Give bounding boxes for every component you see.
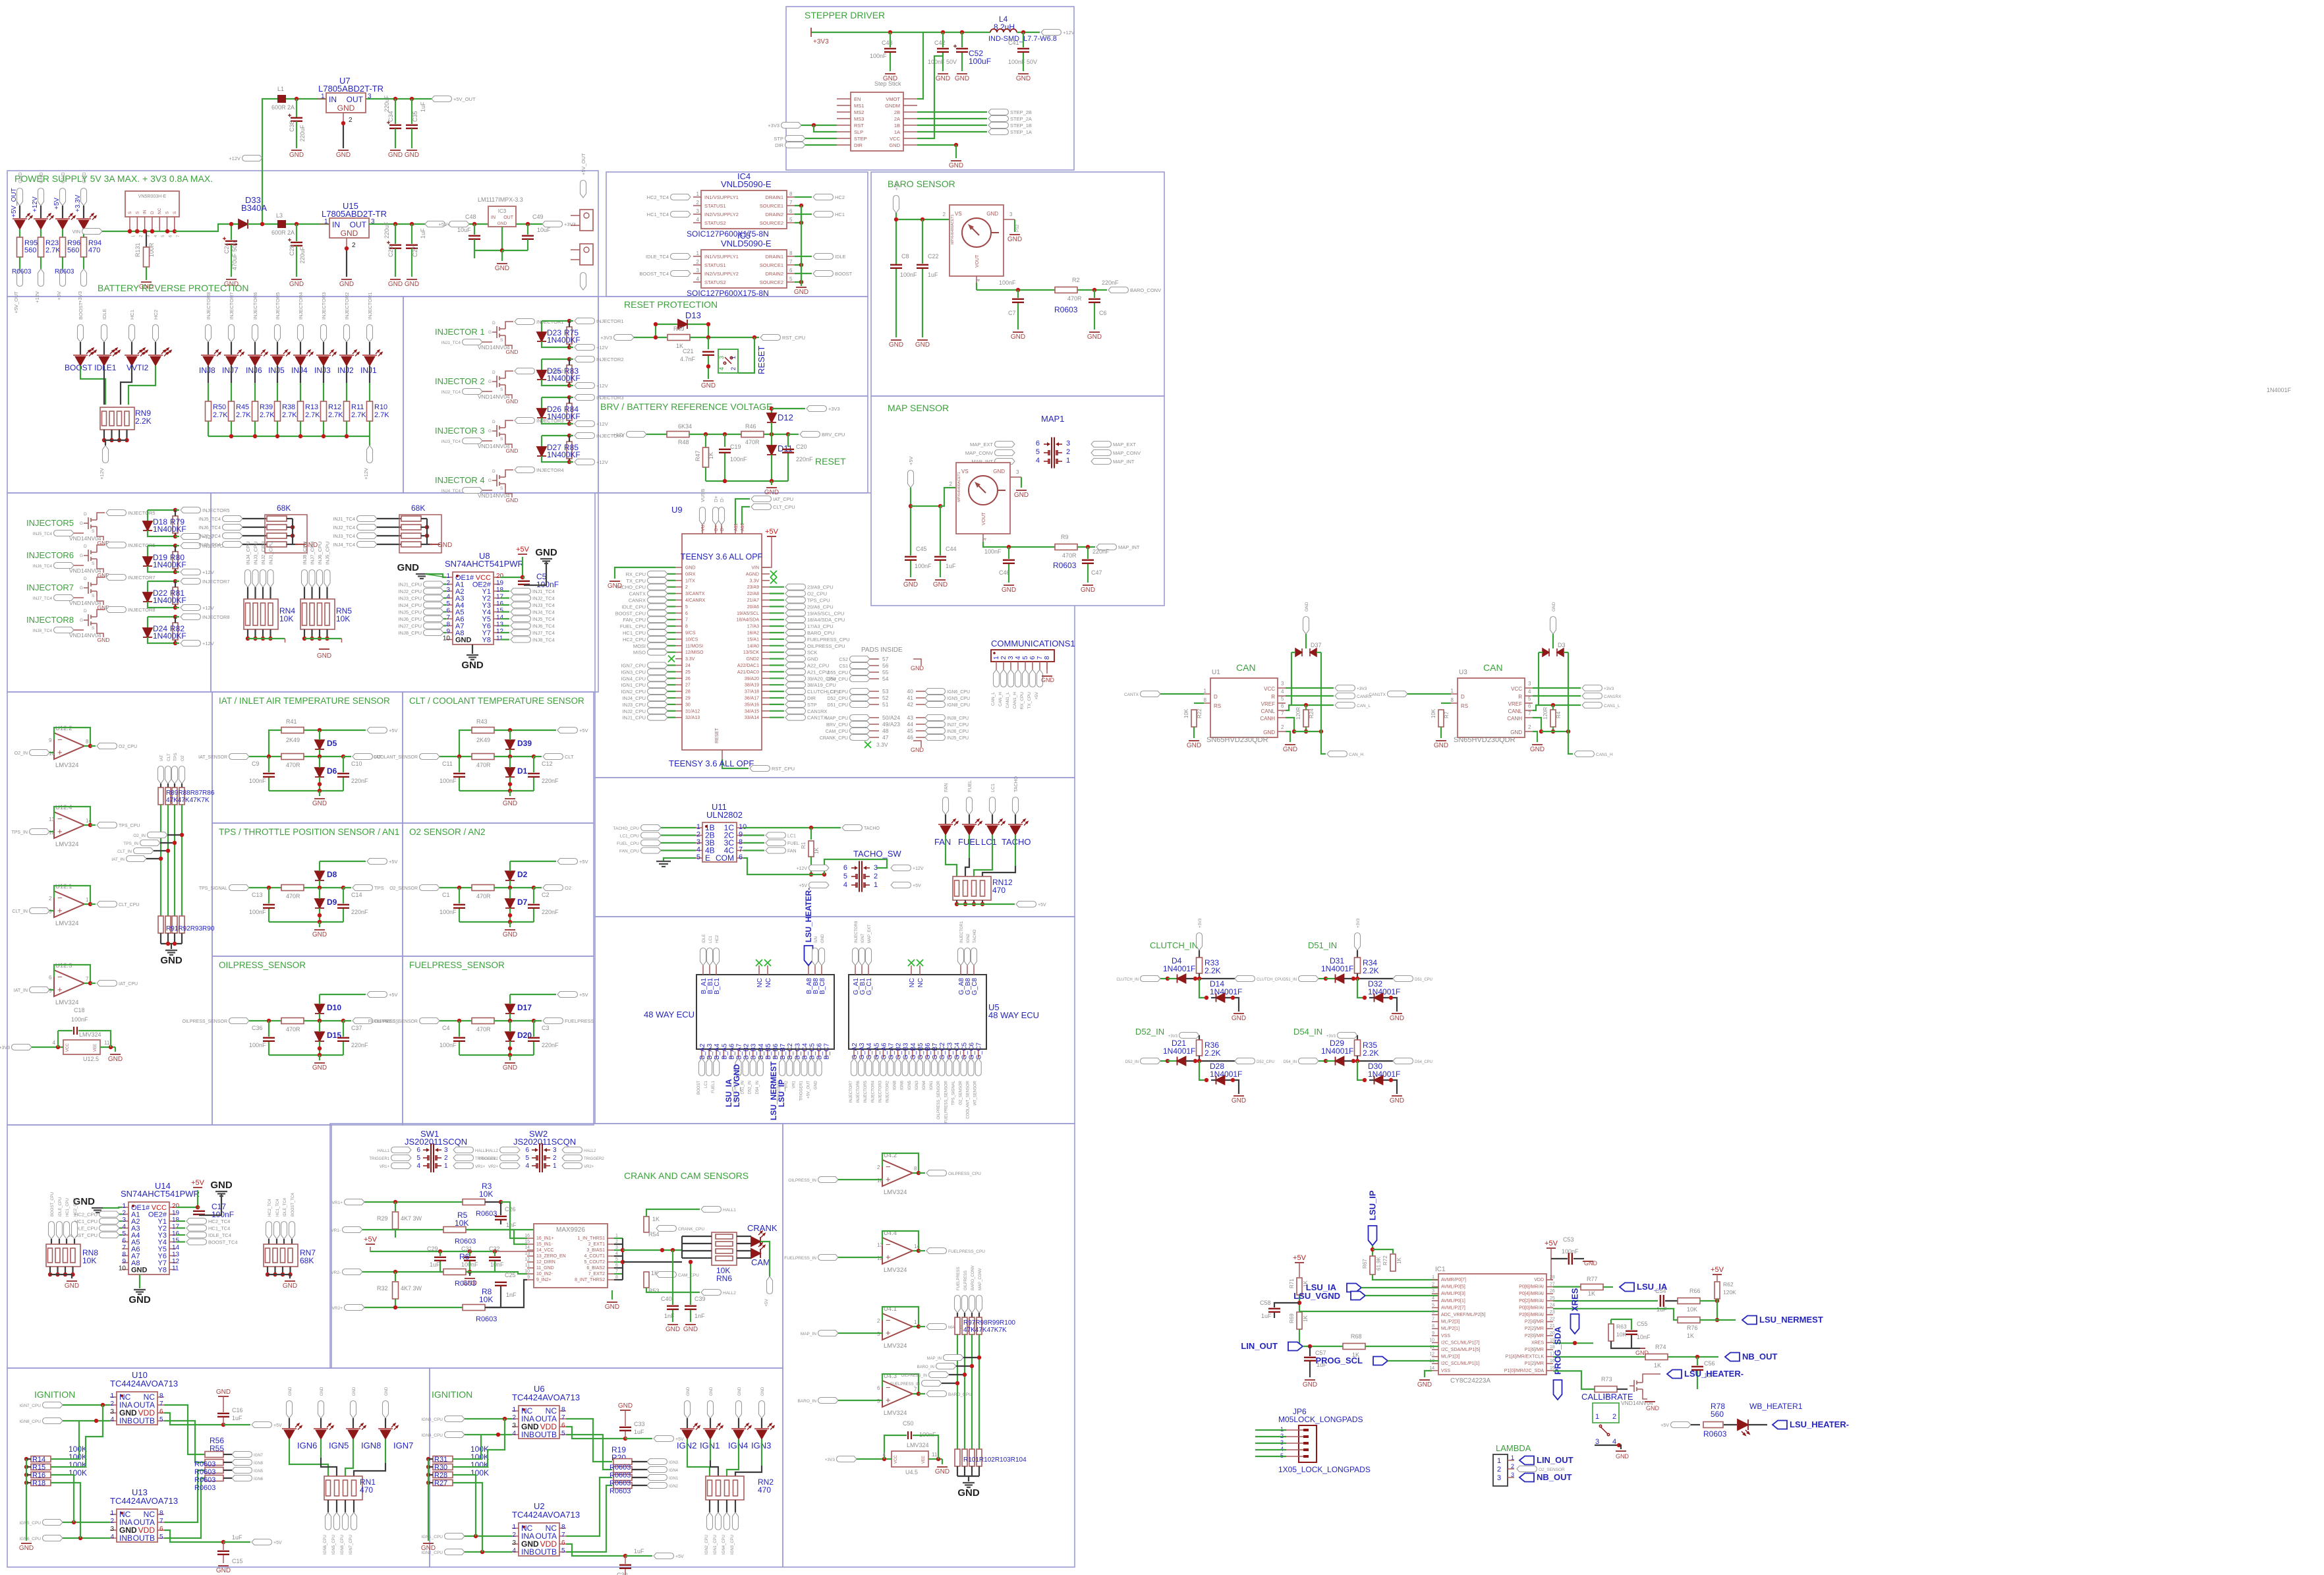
svg-text:1nF: 1nF [694, 1313, 705, 1319]
svg-text:D54_CPU: D54_CPU [1415, 1060, 1432, 1064]
svg-text:B_A3: B_A3 [706, 1043, 714, 1060]
svg-text:G_A3: G_A3 [859, 1043, 866, 1060]
svg-text:B_B3: B_B3 [751, 1043, 758, 1060]
svg-text:8: 8 [1432, 1324, 1434, 1329]
svg-text:R6: R6 [459, 1252, 470, 1261]
svg-text:INJ3_TC4: INJ3_TC4 [441, 440, 461, 444]
svg-text:2: 2 [696, 831, 700, 839]
svg-text:A22/DAC1: A22/DAC1 [737, 664, 759, 668]
svg-text:+5V: +5V [273, 1541, 282, 1545]
svg-text:47K47K47K7K: 47K47K47K7K [166, 797, 210, 804]
svg-text:+3V3: +3V3 [813, 38, 829, 45]
svg-text:MPXH6400ACET1: MPXH6400ACET1 [957, 472, 961, 502]
svg-text:IN: IN [143, 210, 148, 214]
svg-text:GND: GND [339, 281, 354, 288]
svg-text:+3.3V: +3.3V [74, 194, 82, 212]
svg-text:+12V: +12V [202, 605, 214, 611]
svg-text:IGN2: IGN2 [669, 1485, 679, 1489]
svg-text:O2_SENSOR: O2_SENSOR [389, 886, 418, 891]
flag D+ [713, 507, 719, 525]
svg-text:4: 4 [696, 276, 700, 282]
svg-text:R91R92R93R90: R91R92R93R90 [166, 925, 215, 932]
capacitor C33 1uF [619, 1427, 631, 1431]
svg-text:47: 47 [882, 734, 889, 741]
svg-text:4K7 3W: 4K7 3W [401, 1285, 422, 1292]
LED IGN2 [685, 1401, 691, 1419]
svg-text:TPS_SIGNAL: TPS_SIGNAL [951, 1080, 955, 1105]
svg-text:R41: R41 [286, 718, 297, 725]
svg-text:S: S [128, 211, 132, 214]
svg-text:16: 16 [172, 1230, 180, 1238]
svg-text:C1: C1 [442, 892, 450, 898]
svg-text:R0603: R0603 [1054, 305, 1078, 314]
svg-text:5: 5 [122, 1230, 126, 1238]
op-amp U12.2 [54, 733, 84, 759]
svg-text:AGND: AGND [746, 572, 759, 577]
resistor network RN2 470 [706, 1476, 744, 1500]
svg-text:INJ2_CPU: INJ2_CPU [260, 542, 266, 565]
svg-text:4: 4 [843, 881, 847, 889]
svg-text:+5V: +5V [893, 181, 899, 190]
flag +3V3 [542, 221, 563, 227]
svg-text:GND: GND [1087, 333, 1102, 341]
svg-text:OUTB: OUTB [133, 1533, 155, 1543]
flag LSU_IA right [1620, 1283, 1634, 1292]
capacitor C35 1uF [411, 99, 412, 124]
ecu B bottom pins [701, 1049, 702, 1058]
svg-text:2: 2 [49, 896, 52, 902]
svg-text:D: D [492, 420, 496, 424]
svg-text:STP: STP [807, 702, 817, 708]
svg-text:5: 5 [446, 600, 450, 608]
svg-text:VCC: VCC [1511, 686, 1522, 692]
svg-text:GND: GND [889, 341, 903, 349]
svg-text:R50: R50 [213, 403, 226, 411]
svg-text:G_C4: G_C4 [953, 1042, 961, 1060]
svg-text:GND: GND [506, 497, 519, 503]
svg-text:LC1: LC1 [709, 935, 713, 943]
svg-text:OILPRESS_CPU: OILPRESS_CPU [948, 1172, 981, 1176]
flag VIN [82, 229, 103, 235]
flag LSU_IP top [1369, 1226, 1377, 1246]
svg-text:B_B7: B_B7 [779, 1043, 787, 1060]
svg-text:OILPRESS: OILPRESS [964, 1271, 968, 1290]
svg-text:LMV324: LMV324 [55, 920, 78, 927]
resistor mid 470R [472, 885, 494, 891]
resistor R69 1K [1297, 1312, 1302, 1329]
svg-text:C10: C10 [351, 760, 362, 767]
svg-text:IN: IN [329, 95, 337, 104]
svg-text:MAP SENSOR: MAP SENSOR [888, 403, 949, 413]
svg-text:GND: GND [128, 1294, 151, 1305]
svg-text:R0603: R0603 [609, 1472, 631, 1479]
diode D7 [505, 899, 515, 908]
svg-text:INJ8_CPU: INJ8_CPU [302, 542, 308, 565]
svg-text:R66: R66 [1689, 1288, 1701, 1294]
svg-text:R0603: R0603 [194, 1484, 215, 1492]
svg-text:O2: O2 [565, 885, 571, 891]
svg-text:GND: GND [210, 1180, 233, 1191]
svg-text:B_A2: B_A2 [699, 1043, 706, 1060]
teensy gnd left [615, 567, 675, 579]
svg-text:IGN1: IGN1 [930, 1080, 934, 1090]
svg-text:IAT / INLET AIR TEMPERATURE SE: IAT / INLET AIR TEMPERATURE SENSOR [219, 696, 390, 706]
svg-text:C3: C3 [542, 1025, 550, 1031]
tacho_sw left flags [809, 865, 830, 871]
svg-text:MAP_INT: MAP_INT [1118, 544, 1140, 550]
svg-text:10K: 10K [1616, 1331, 1626, 1338]
svg-text:GND: GND [1434, 742, 1448, 749]
frame fuelpress box [403, 956, 594, 1125]
flag +3V3 CLUTCH_IN [1197, 933, 1203, 950]
svg-text:3.3V: 3.3V [750, 579, 760, 583]
svg-text:GND: GND [911, 665, 924, 672]
R101-104 bottom column [955, 1449, 960, 1466]
svg-text:INJECTOR7: INJECTOR7 [202, 579, 230, 585]
U6 outputs wires [566, 1419, 612, 1462]
svg-text:R0603: R0603 [455, 1280, 476, 1288]
svg-text:1N4001F: 1N4001F [1368, 987, 1400, 996]
svg-text:HC2_CPU: HC2_CPU [74, 1212, 98, 1218]
svg-text:INJECTOR5: INJECTOR5 [128, 510, 156, 516]
svg-text:19: 19 [496, 580, 504, 587]
wires to RN9 [80, 366, 105, 405]
svg-text:STATUS2: STATUS2 [704, 279, 726, 285]
svg-text:L1: L1 [277, 86, 284, 92]
connector 48 WAY ECU G [849, 975, 986, 1049]
svg-text:GND: GND [506, 349, 519, 355]
svg-text:470: 470 [88, 246, 100, 254]
svg-text:28: 28 [685, 690, 691, 695]
svg-text:+3V3: +3V3 [0, 1046, 10, 1050]
svg-text:−: − [57, 735, 63, 745]
svg-text:BOOST: BOOST [697, 1081, 701, 1095]
svg-text:VR1+: VR1+ [380, 1165, 390, 1169]
svg-text:GND: GND [216, 1389, 231, 1396]
svg-text:CAN1RX: CAN1RX [1604, 695, 1622, 699]
svg-text:R39: R39 [260, 403, 273, 411]
svg-text:O2 SENSOR / AN2: O2 SENSOR / AN2 [409, 827, 486, 837]
svg-text:SOIC127P600X175-8N: SOIC127P600X175-8N [687, 289, 769, 298]
svg-text:A21_CPU: A21_CPU [807, 669, 829, 675]
svg-text:1K: 1K [1303, 1315, 1309, 1322]
svg-text:IGN8: IGN8 [361, 1441, 381, 1450]
svg-text:+5V: +5V [1660, 1423, 1669, 1428]
wire L1 to U7 [286, 98, 326, 100]
svg-text:2: 2 [352, 242, 356, 249]
svg-text:JS202011SCQN: JS202011SCQN [513, 1137, 576, 1147]
svg-text:7: 7 [561, 1414, 565, 1421]
capacitor C2 220nF [533, 888, 534, 903]
svg-text:D52_IN: D52_IN [1125, 1060, 1139, 1064]
svg-text:43: 43 [907, 714, 914, 721]
svg-text:HC1: HC1 [129, 310, 135, 320]
svg-text:22: 22 [1550, 1317, 1555, 1322]
svg-text:2: 2 [349, 117, 353, 124]
flag D- [719, 507, 725, 525]
svg-text:6: 6 [1432, 1310, 1434, 1315]
svg-text:120K: 120K [1723, 1289, 1736, 1296]
svg-text:D+: D+ [714, 525, 719, 531]
svg-text:VEE: VEE [922, 1456, 926, 1464]
svg-text:1: 1 [110, 1510, 114, 1517]
svg-text:R15: R15 [32, 1464, 45, 1472]
svg-text:GND: GND [139, 283, 154, 291]
svg-text:IGN2: IGN2 [967, 933, 971, 943]
svg-text:INJ7_CPU: INJ7_CPU [399, 623, 422, 629]
svg-text:P0[6]/MR/AI: P0[6]/MR/AI [1519, 1285, 1544, 1290]
svg-text:IGN8_CPU: IGN8_CPU [947, 703, 970, 708]
svg-text:34/A15: 34/A15 [745, 709, 759, 714]
svg-text:D: D [1461, 694, 1465, 700]
U14 pin10 gnd [139, 1274, 140, 1288]
pads left group2 [850, 689, 870, 695]
svg-text:+5V: +5V [765, 528, 779, 536]
svg-text:1N4001F: 1N4001F [1210, 987, 1242, 996]
svg-text:+5V: +5V [1545, 1240, 1558, 1247]
svg-text:G: G [80, 554, 83, 558]
svg-text:6: 6 [561, 1422, 565, 1429]
svg-text:GND: GND [60, 172, 66, 183]
diode D9 [315, 899, 324, 908]
R73 transistor VND14NV04 lambda [1553, 1371, 1595, 1389]
svg-text:TPS_CPU: TPS_CPU [119, 824, 140, 828]
svg-text:2: 2 [1511, 1463, 1514, 1470]
svg-text:5: 5 [159, 1416, 163, 1423]
svg-text:6: 6 [1528, 703, 1531, 709]
resistor network RN7 68K [266, 1222, 272, 1240]
svg-text:GND: GND [81, 172, 87, 183]
pads left group3 [850, 715, 870, 721]
teensy top pins [702, 525, 703, 534]
capacitor C29 1uF [439, 1251, 441, 1256]
teensy right pins [762, 567, 770, 568]
svg-text:+5V: +5V [389, 728, 398, 733]
svg-text:VR1+: VR1+ [332, 1201, 343, 1205]
stepper vcc wire [917, 56, 943, 138]
svg-text:P1[2]/MR: P1[2]/MR [1525, 1361, 1544, 1366]
frame opamp2 box [783, 1124, 1075, 1567]
svg-text:G_A6: G_A6 [880, 1043, 888, 1060]
crank caps gnd [440, 1271, 470, 1273]
svg-text:INB: INB [119, 1533, 132, 1543]
svg-text:NB_OUT: NB_OUT [1537, 1472, 1572, 1482]
svg-text:HALL2: HALL2 [723, 1291, 736, 1296]
flag LSU_HEATER- mid [1643, 1374, 1660, 1378]
wires vcc to +3V3 U1 [1286, 687, 1334, 689]
LED indicator VVTI1 [129, 325, 135, 343]
svg-text:GND: GND [65, 1282, 79, 1290]
svg-text:IGN1_CPU: IGN1_CPU [714, 1535, 718, 1555]
svg-text:LMV324: LMV324 [55, 999, 78, 1006]
svg-text:R0603: R0603 [55, 268, 74, 275]
svg-text:1nF: 1nF [506, 1292, 517, 1298]
frame led indicators box [7, 297, 403, 493]
svg-text:23/A9: 23/A9 [747, 585, 759, 590]
svg-text:3: 3 [553, 1147, 557, 1154]
flag OILPRESS_SENSOR [229, 1018, 250, 1024]
baro pressure sensor [949, 205, 1004, 276]
svg-text:CAN1TX: CAN1TX [1369, 693, 1386, 697]
svg-text:U4.5: U4.5 [905, 1469, 918, 1475]
svg-text:GND: GND [289, 152, 304, 159]
svg-text:CAN: CAN [1483, 662, 1503, 673]
wire +12V to L1 [262, 99, 277, 158]
svg-text:G_C6: G_C6 [969, 1042, 976, 1060]
svg-text:IGN5_CPU: IGN5_CPU [332, 1535, 336, 1555]
flag +5V right edge bottom [581, 273, 586, 290]
svg-text:D: D [492, 370, 496, 375]
svg-text:2: 2 [943, 212, 946, 217]
svg-text:2: 2 [696, 259, 700, 265]
svg-text:GND: GND [495, 265, 509, 272]
resistor R62 120K [1713, 1274, 1722, 1275]
svg-text:INJ8_CPU: INJ8_CPU [947, 716, 969, 721]
U2 outputs wires [566, 1477, 612, 1536]
svg-text:2K49: 2K49 [286, 737, 300, 743]
svg-text:2.7K: 2.7K [236, 411, 251, 419]
svg-text:GND: GND [710, 1387, 714, 1396]
svg-text:1K: 1K [1687, 1332, 1694, 1339]
svg-text:GND: GND [216, 1567, 231, 1574]
svg-text:MAP_EXT: MAP_EXT [868, 925, 872, 943]
wire L3 to U15 [286, 223, 329, 225]
svg-text:1: 1 [696, 191, 700, 197]
svg-text:+12V: +12V [613, 432, 625, 438]
svg-text:U12.2: U12.2 [55, 725, 72, 732]
svg-text:100nF: 100nF [730, 456, 747, 463]
resistor 10K pull U1 [1194, 702, 1204, 704]
svg-text:100nF: 100nF [1562, 1248, 1579, 1255]
svg-text:LMV324: LMV324 [884, 1342, 907, 1350]
svg-text:INJECTOR2: INJECTOR2 [886, 1080, 890, 1102]
svg-text:1N4001F: 1N4001F [2267, 387, 2292, 393]
wire R to CANRX [1286, 695, 1334, 697]
flag CAN1_H [1568, 731, 1573, 754]
svg-text:47K47K47K7K: 47K47K47K7K [963, 1327, 1007, 1334]
resistor R76 1K [1553, 1309, 1678, 1320]
flag VR2- [343, 1269, 363, 1275]
svg-text:120R: 120R [1295, 707, 1301, 720]
svg-text:+5V: +5V [53, 198, 61, 210]
U8 gnd right symbol [524, 561, 546, 585]
svg-text:INJ4: INJ4 [291, 366, 308, 375]
svg-text:BOOST_TC4: BOOST_TC4 [208, 1240, 238, 1246]
svg-text:7: 7 [86, 976, 89, 982]
svg-text:CRANK_CPU: CRANK_CPU [678, 1227, 704, 1232]
svg-text:1: 1 [86, 897, 89, 903]
svg-text:GND: GND [388, 281, 403, 288]
svg-text:8: 8 [1044, 656, 1051, 660]
callibrate gnd [1595, 1445, 1619, 1446]
gnd FUELPRESS_SENSOR [459, 1054, 534, 1056]
svg-text:INJECTOR5: INJECTOR5 [26, 518, 74, 528]
svg-text:1: 1 [696, 823, 700, 831]
svg-text:10K: 10K [1431, 708, 1436, 718]
flag OILPRESS [353, 1018, 373, 1024]
svg-text:7: 7 [685, 618, 688, 623]
svg-text:13_ZERO_EN: 13_ZERO_EN [536, 1254, 566, 1259]
svg-text:VR2+: VR2+ [488, 1165, 499, 1169]
svg-text:+12V: +12V [32, 196, 39, 212]
svg-text:3: 3 [696, 838, 700, 846]
svg-text:2: 2 [877, 1318, 880, 1324]
svg-text:GND: GND [503, 1064, 517, 1072]
flag +3V3 u4 power [837, 1456, 857, 1462]
svg-text:4: 4 [110, 1533, 114, 1541]
svg-text:+5V_OUT: +5V_OUT [13, 291, 19, 314]
svg-text:C21: C21 [683, 348, 694, 355]
svg-text:E: E [705, 853, 710, 863]
capacitor C6 220nF [1094, 290, 1095, 298]
resistor mid 470R [281, 1018, 304, 1024]
svg-text:P1[6]/MR: P1[6]/MR [1525, 1348, 1544, 1352]
svg-text:CAN_L: CAN_L [1357, 704, 1371, 708]
capacitor C52 100uF [961, 32, 963, 47]
svg-text:IGN7_CPU: IGN7_CPU [19, 1404, 41, 1408]
svg-text:BOOST_TC4: BOOST_TC4 [291, 1193, 295, 1217]
svg-text:SN74AHCT541PWR: SN74AHCT541PWR [445, 559, 524, 569]
svg-text:7: 7 [1528, 710, 1531, 716]
flag +5V TPS / THROTTLE POSITION SENSOR / AN1 [367, 859, 387, 865]
svg-text:VIN: VIN [72, 229, 80, 235]
svg-text:RST_CPU: RST_CPU [772, 766, 795, 772]
svg-text:VDD: VDD [1534, 1278, 1544, 1282]
svg-text:53: 53 [882, 688, 889, 695]
capacitor C24 470uF 50V [231, 224, 232, 240]
flag +3V3 D51_IN [1355, 933, 1361, 950]
IC4/IC5 shared gnd [801, 206, 802, 282]
svg-text:3: 3 [512, 1422, 516, 1429]
svg-text:8: 8 [561, 1524, 565, 1531]
bottom gnd join [161, 943, 182, 944]
flag NB_OUT [1725, 1353, 1740, 1361]
gnd flag U3 tvs [1550, 617, 1556, 635]
capacitor C1 100nF [459, 888, 460, 903]
svg-text:RX_CPU: RX_CPU [626, 571, 646, 577]
svg-text:TEENSY 3.6 ALL OPF: TEENSY 3.6 ALL OPF [669, 759, 754, 768]
svg-text:470R: 470R [286, 893, 300, 900]
svg-text:23/A9_CPU: 23/A9_CPU [807, 585, 834, 590]
diode D17 [505, 1004, 515, 1014]
svg-text:BARO_CONV: BARO_CONV [971, 1265, 975, 1290]
flag BARO_CPU [919, 1393, 925, 1394]
svg-text:B_C4: B_C4 [801, 1043, 808, 1060]
svg-text:1A: 1A [894, 129, 900, 135]
svg-text:R0603: R0603 [609, 1487, 631, 1495]
flag BRV_CPU [788, 434, 799, 435]
frame injector5-8 box [7, 493, 211, 692]
IC MAX9926 [534, 1224, 608, 1288]
+5V crank [366, 1244, 375, 1245]
svg-text:49/A23: 49/A23 [882, 721, 900, 728]
svg-text:100nF: 100nF [999, 279, 1016, 286]
svg-text:D9: D9 [327, 898, 337, 907]
svg-text:S: S [500, 486, 503, 491]
svg-text:XRES: XRES [1570, 1288, 1580, 1311]
svg-text:R29: R29 [377, 1215, 388, 1222]
svg-text:R2: R2 [1072, 277, 1080, 283]
svg-text:4: 4 [696, 217, 700, 223]
svg-text:CLT_CPU: CLT_CPU [119, 903, 139, 907]
svg-text:2.2K: 2.2K [135, 416, 152, 426]
svg-text:COOLANT_SENSOR: COOLANT_SENSOR [374, 755, 418, 760]
svg-text:2.7K: 2.7K [374, 411, 389, 419]
svg-text:IGN6: IGN6 [901, 1080, 905, 1090]
svg-text:C36: C36 [252, 1025, 263, 1031]
svg-text:INJ5_CPU: INJ5_CPU [399, 610, 422, 616]
svg-text:3: 3 [1511, 1472, 1514, 1478]
